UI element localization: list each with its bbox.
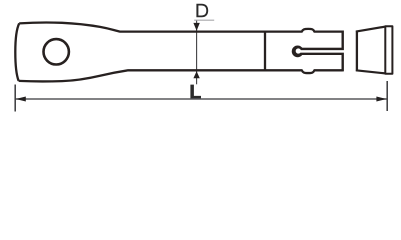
L right arrowhead: [376, 97, 386, 102]
sleeve right end vertical: [342, 31, 344, 72]
eye hole: [44, 39, 69, 64]
eye plate top edge + shaft/sleeve top line with crimp bump: [19, 23, 343, 32]
L right extension line: [386, 81, 388, 111]
sleeve left end vertical: [264, 31, 266, 72]
keyhole slot black body: [298, 48, 343, 55]
D leader vertical line (through part): [196, 20, 198, 84]
D lower arrow (up): [193, 71, 199, 78]
expansion cone left edge: [356, 31, 358, 71]
D label (drawn as path): [196, 4, 208, 18]
keyhole slot white slit: [298, 50, 345, 53]
L dimension line: [15, 98, 387, 100]
eye plate left curved edge: [15, 23, 19, 80]
keyhole circle black: [292, 46, 304, 58]
expansion cone top slant: [356, 27, 385, 32]
D upper arrow (down): [193, 23, 199, 31]
D label underline: [194, 19, 214, 21]
L left extension line: [14, 85, 16, 112]
eye plate bottom edge + shaft/sleeve bottom line with crimp bump: [19, 70, 343, 81]
cone end face rectangle: [385, 26, 392, 73]
L label (drawn as path, bold): [190, 85, 201, 99]
keyhole white hole: [296, 48, 301, 53]
expansion cone bottom slant: [356, 70, 385, 73]
L left arrowhead: [16, 97, 26, 102]
